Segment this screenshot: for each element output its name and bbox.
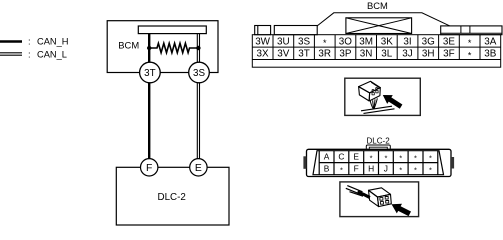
svg-text:3J: 3J xyxy=(402,49,412,60)
svg-text:3A: 3A xyxy=(484,36,496,47)
svg-text:F: F xyxy=(354,163,359,173)
svg-text:B: B xyxy=(324,163,330,173)
svg-text:3S: 3S xyxy=(193,68,205,79)
svg-text::: : xyxy=(28,36,31,46)
svg-text:*: * xyxy=(323,38,327,48)
svg-text:3H: 3H xyxy=(422,49,435,60)
svg-text:3M: 3M xyxy=(359,36,373,47)
svg-text:BCM: BCM xyxy=(367,0,388,11)
svg-text:3U: 3U xyxy=(277,36,290,47)
svg-text:H: H xyxy=(368,163,374,173)
svg-text:3T: 3T xyxy=(298,49,310,60)
svg-text:3F: 3F xyxy=(443,49,455,60)
svg-text:CAN_L: CAN_L xyxy=(37,49,67,59)
svg-text:E: E xyxy=(195,163,202,174)
svg-text:*: * xyxy=(384,153,387,162)
svg-text:DLC-2: DLC-2 xyxy=(367,136,391,145)
svg-text:A: A xyxy=(324,152,330,162)
svg-text:3S: 3S xyxy=(298,36,310,47)
svg-text:DLC-2: DLC-2 xyxy=(158,192,186,203)
svg-text:3V: 3V xyxy=(277,49,289,60)
svg-text:E: E xyxy=(353,152,359,162)
svg-text:C: C xyxy=(338,152,344,162)
svg-text:F: F xyxy=(146,163,152,174)
svg-text:*: * xyxy=(414,165,417,174)
svg-text:3W: 3W xyxy=(255,36,270,47)
svg-text:3K: 3K xyxy=(381,36,393,47)
svg-text:3X: 3X xyxy=(257,49,269,60)
svg-text:3E: 3E xyxy=(443,36,455,47)
svg-text:3G: 3G xyxy=(422,36,435,47)
svg-text:*: * xyxy=(370,153,373,162)
svg-text:3O: 3O xyxy=(339,36,352,47)
svg-text::: : xyxy=(28,49,31,59)
svg-text:*: * xyxy=(399,153,402,162)
svg-text:J: J xyxy=(384,163,388,173)
svg-text:3I: 3I xyxy=(403,36,411,47)
svg-text:*: * xyxy=(468,50,472,60)
svg-text:3N: 3N xyxy=(360,49,373,60)
svg-text:*: * xyxy=(429,165,432,174)
svg-text:*: * xyxy=(340,165,343,174)
svg-text:3L: 3L xyxy=(381,49,392,60)
svg-text:*: * xyxy=(429,153,432,162)
svg-text:BCM: BCM xyxy=(118,39,139,50)
svg-text:3P: 3P xyxy=(339,49,351,60)
svg-text:*: * xyxy=(414,153,417,162)
svg-text:*: * xyxy=(399,165,402,174)
svg-text:3T: 3T xyxy=(144,68,155,79)
svg-text:3B: 3B xyxy=(484,49,496,60)
svg-text:*: * xyxy=(468,38,472,48)
svg-text:CAN_H: CAN_H xyxy=(37,36,69,46)
svg-text:3R: 3R xyxy=(318,49,331,60)
